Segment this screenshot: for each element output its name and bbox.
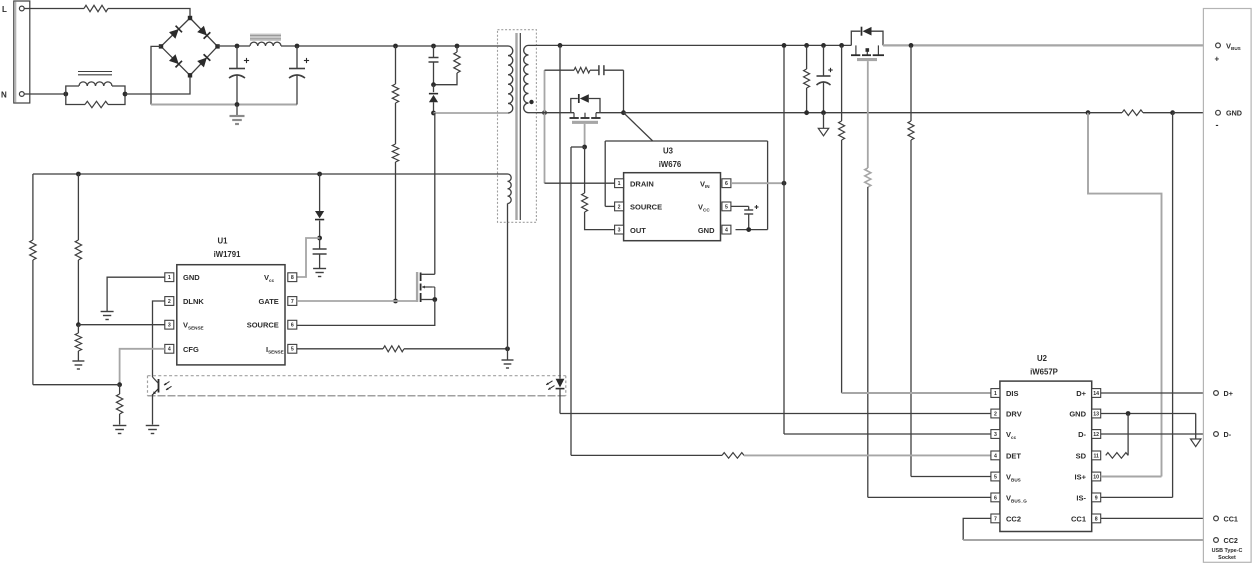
U1 pin 8 (288, 273, 297, 282)
U2 pin 3 (991, 430, 1000, 439)
U2 label CC2 (1006, 515, 1021, 524)
wire fuse to bridge (108, 9, 190, 17)
transistor Q4 channel (851, 45, 884, 55)
capacitor C6 (U3 VCC) (731, 205, 759, 230)
node VCC junction (317, 236, 322, 241)
bridge vertex node (188, 16, 192, 20)
resistor R7 (CFG lower) (116, 385, 122, 425)
wire DC rail (218, 45, 251, 47)
wire U1 DLNK to opto collector (153, 301, 165, 377)
svg-text:GND: GND (1226, 109, 1242, 118)
U1 pin 7 (288, 297, 297, 306)
capacitor C4 (VCC) (313, 238, 327, 268)
svg-text:6: 6 (291, 323, 294, 329)
svg-text:USB Type-C: USB Type-C (1212, 548, 1243, 554)
transformer primary winding (498, 46, 513, 113)
wire L to fuse (24, 8, 84, 10)
node VIN junction (782, 181, 787, 186)
wire GND to output (1173, 112, 1218, 114)
svg-text:4: 4 (168, 347, 171, 353)
svg-text:IS+: IS+ (1075, 473, 1087, 482)
U2 label DRV (1006, 410, 1022, 419)
choke damping resistor (66, 94, 125, 108)
svg-text:2: 2 (168, 299, 171, 305)
svg-text:9: 9 (1095, 495, 1098, 501)
node primary drain junction (431, 111, 436, 116)
wire VBUS sense vertical (783, 45, 785, 434)
svg-text:U3: U3 (663, 147, 674, 156)
svg-text:1: 1 (994, 391, 997, 397)
resistor R5 (VSENSE upper) (75, 174, 81, 325)
wire GND13 to SD (1127, 414, 1129, 456)
svg-text:N: N (1, 91, 7, 100)
U2 label VBUS (1006, 473, 1021, 483)
transistor Q2 gate wire (584, 124, 586, 147)
snubber left leg (544, 70, 546, 183)
U2 label VBUSG (1006, 494, 1027, 504)
ground (opto emitter) (146, 426, 160, 434)
svg-text:-: - (1216, 120, 1219, 130)
node IS- tap (1170, 110, 1175, 115)
node startup chain top (393, 44, 398, 49)
U2 label DIS (1006, 389, 1019, 398)
U1 pin 5 (288, 344, 297, 353)
capacitor C7 (output) (817, 45, 833, 112)
choke core lines (78, 72, 112, 75)
wire D- (1101, 433, 1215, 435)
wire secondary bottom (536, 112, 574, 114)
node vsense divider top (76, 172, 81, 177)
U1 label DLNK (183, 297, 204, 306)
svg-text:iW1791: iW1791 (214, 250, 242, 259)
svg-text:8: 8 (1095, 516, 1098, 522)
node clamp resistor top (455, 44, 460, 49)
bridge diode D1 (left-top edge) (169, 26, 182, 39)
connector J2 (USB Type-C) (1203, 9, 1251, 563)
svg-text:2: 2 (994, 411, 997, 417)
svg-text:CC2: CC2 (1006, 515, 1021, 524)
svg-text:10: 10 (1093, 474, 1099, 480)
U2 pin 2 (991, 409, 1000, 418)
U3 label SOURCE (630, 203, 662, 212)
wire GND13 (1101, 413, 1196, 415)
wire clamp to primary bottom (434, 112, 509, 114)
resistor R1 (startup upper) (392, 46, 398, 103)
resistor R13 (gate) (865, 168, 871, 497)
wire IS- kelvin (1172, 113, 1174, 498)
svg-text:D+: D+ (1224, 389, 1233, 398)
svg-text:13: 13 (1093, 411, 1099, 417)
wire IS+ (1101, 476, 1162, 478)
U2 pin 8 (1092, 514, 1101, 523)
U1 label GATE (259, 297, 279, 306)
optocoupler LED wire (559, 45, 561, 378)
svg-text:DLNK: DLNK (183, 297, 204, 306)
svg-text:8: 8 (291, 275, 294, 281)
transistor Q1 body arrow (422, 286, 435, 300)
svg-text:7: 7 (994, 516, 997, 522)
U2 pin 11 (1092, 451, 1101, 460)
fuse F1 (84, 5, 108, 11)
resistor R6 (VSENSE lower) (75, 325, 81, 361)
terminal CC1 (1214, 514, 1238, 523)
node resistor R11 top (804, 43, 809, 48)
svg-text:3: 3 (168, 323, 171, 329)
svg-text:IS-: IS- (1076, 494, 1086, 503)
node clamp junction (431, 82, 436, 87)
svg-text:U1: U1 (218, 237, 229, 246)
resistor R17 (SD) (1106, 453, 1128, 459)
resistor R11 (VBUS-GND) (804, 45, 810, 112)
transformer secondary winding (524, 45, 537, 112)
svg-text:4: 4 (725, 228, 728, 234)
ground (CFG resistor) (113, 426, 127, 434)
U3 label VCC (698, 203, 710, 213)
svg-text:12: 12 (1093, 432, 1099, 438)
wire aux rail (33, 173, 498, 175)
svg-text:3: 3 (994, 432, 997, 438)
U1 label GND (183, 273, 200, 282)
snubber right leg (623, 70, 625, 113)
wire U3 gnd leg (736, 141, 768, 230)
ground (ISENSE) (502, 349, 514, 368)
node choke-right (123, 92, 128, 97)
svg-text:SOURCE: SOURCE (630, 203, 662, 212)
U3 pin 6 (722, 179, 731, 188)
U2 pin 5 (991, 472, 1000, 481)
wire U1 VSENSE (78, 324, 164, 326)
choke L1 winding (66, 82, 125, 94)
U3 label GND (698, 226, 715, 235)
wire bridge minus to bottom rail (151, 46, 161, 104)
U1 label CFG (183, 345, 199, 354)
label iW1791 (214, 250, 242, 259)
resistor R9 (SR snubber) (545, 67, 591, 73)
U1 label VSENSE (183, 321, 204, 331)
node choke-left (63, 92, 68, 97)
wire U3 VIN (731, 182, 784, 184)
wire L2 to rail (281, 45, 498, 47)
transistor Q2 body diode (571, 94, 600, 113)
resistor R15 (current sense) (1088, 110, 1173, 116)
wire U3 DRAIN (545, 182, 615, 184)
diode D5 (clamp) (429, 85, 438, 113)
svg-text:3: 3 (618, 228, 621, 234)
U2 label GND13 (1069, 410, 1086, 419)
U3 label OUT (630, 226, 646, 235)
wire DET left (571, 454, 722, 456)
ground (VSENSE divider) (72, 361, 84, 369)
bridge vertex node (215, 44, 219, 48)
node ISENSE junction (505, 346, 510, 351)
transistor Q1 channel (420, 273, 422, 303)
node CFG junction (117, 382, 122, 387)
svg-text:4: 4 (994, 453, 997, 459)
node cap C1 bottom (235, 102, 240, 107)
U2 label SD (1076, 452, 1087, 461)
svg-text:L: L (2, 5, 7, 14)
label U3 (663, 147, 674, 156)
bridge rectifier BR1 frame (161, 18, 218, 75)
wire DIS (842, 392, 993, 394)
U2 label Vcc (1006, 430, 1017, 440)
svg-text:2: 2 (618, 204, 621, 210)
svg-text:CC2: CC2 (1224, 536, 1238, 545)
node R11 bottom (804, 110, 809, 115)
U1 pin 4 (165, 344, 174, 353)
resistor R10 (U3 gate) (582, 147, 615, 230)
U2 pin 13 (1092, 409, 1101, 418)
label USB Type-C Socket (1212, 548, 1243, 561)
node opto LED tap (558, 43, 563, 48)
bridge vertex node (159, 44, 163, 48)
U2 label IS- (1076, 494, 1086, 503)
U1 pin 3 (165, 320, 174, 329)
wire gate node to DET (571, 147, 585, 455)
opto light arrows (emit) (546, 381, 554, 390)
U2 pin 7 (991, 514, 1000, 523)
wire IS- (1101, 496, 1173, 498)
connector J1 (AC input) (14, 1, 30, 103)
U2 pin 9 (1092, 493, 1101, 502)
U3 pin 2 (615, 202, 624, 211)
svg-text:Socket: Socket (1218, 555, 1236, 561)
svg-text:CC1: CC1 (1071, 515, 1086, 524)
label U1 (218, 237, 229, 246)
U3 pin 5 (722, 202, 731, 211)
wire U1 GATE to Q1 (297, 300, 417, 302)
node cap C2 top (295, 44, 300, 49)
svg-text:iW676: iW676 (659, 160, 682, 169)
U2 pin 10 (1092, 472, 1101, 481)
wire choke to bridge (125, 77, 190, 94)
svg-text:GND: GND (1069, 410, 1086, 419)
node U3 gnd-cap junction (746, 227, 751, 232)
wire DET right (744, 454, 993, 456)
ground (secondary) (818, 113, 828, 136)
wire secondary VBUS rail (536, 44, 851, 46)
node SR drain-gnd junction (621, 110, 626, 115)
primary bottom rail (151, 104, 297, 106)
U2 pin 1 (991, 389, 1000, 398)
resistor R14 (VBUS sense) (908, 45, 914, 476)
svg-text:CC1: CC1 (1224, 514, 1238, 523)
wire IS+ kelvin (1088, 113, 1162, 477)
leader SR to U3 net (624, 113, 653, 141)
resistor R4 (CFG divider top) (30, 174, 36, 385)
ground (GND13) (1191, 414, 1201, 447)
svg-text:7: 7 (291, 299, 294, 305)
optocoupler phototransistor Q3 (153, 377, 159, 425)
node C7 bottom (821, 110, 826, 115)
wire U1 CFG (120, 349, 165, 385)
U1 pin 6 (288, 320, 297, 329)
transformer aux winding (498, 174, 512, 222)
U2 label CC1 (1071, 515, 1086, 524)
ground (VCC cap) (313, 269, 326, 277)
wire U3 source/gnd net (605, 140, 767, 142)
ground (U1 GND) (101, 312, 114, 320)
U1 label ISENSE (266, 345, 284, 355)
transistor Q1 gate bar (416, 272, 418, 302)
node aux-vcc diode top (317, 172, 322, 177)
capacitor C5 (SR snubber) (590, 65, 624, 75)
node cap C7 top (821, 43, 826, 48)
U2 label D+ (1076, 389, 1086, 398)
transformer T1 dashed box (498, 30, 537, 223)
wire aux bottom (507, 222, 509, 348)
terminal N (1, 91, 24, 100)
label iW657P (1030, 368, 1058, 377)
node clamp cap top (431, 44, 436, 49)
svg-text:GND: GND (183, 273, 200, 282)
svg-text:OUT: OUT (630, 226, 646, 235)
svg-text:DRV: DRV (1006, 410, 1022, 419)
U3 label VIN (700, 179, 710, 189)
U2 label IS+ (1075, 473, 1087, 482)
wire VBUS to output (883, 44, 1218, 46)
wire Q2 to GND rail (596, 112, 624, 114)
node cap C1 top (235, 44, 240, 49)
wire D+ (1101, 392, 1214, 394)
svg-text:5: 5 (725, 204, 728, 210)
svg-text:1: 1 (168, 275, 171, 281)
bridge diode D2 (top-right edge) (197, 26, 210, 39)
node IS+ tap (1086, 110, 1091, 115)
transistor Q4 gate wire (867, 61, 869, 168)
label U2 (1037, 354, 1048, 363)
secondary phase dot (529, 100, 533, 104)
svg-text:iW657P: iW657P (1030, 368, 1058, 377)
bridge vertex node (188, 73, 192, 77)
optocoupler LED D7 (556, 379, 565, 414)
svg-text:1: 1 (618, 181, 621, 187)
op-amp U3 body (624, 173, 721, 241)
wire U2 VCC (784, 433, 993, 435)
wire DRV (560, 413, 993, 415)
transistor Q2 gate plate (572, 121, 598, 124)
node VBUS rail 784 (782, 43, 787, 48)
label iW676 (659, 160, 682, 169)
svg-text:14: 14 (1093, 391, 1099, 397)
wire U2 CC2 (963, 518, 1218, 540)
capacitor C1 (bulk) (229, 46, 249, 105)
U3 label DRAIN (630, 179, 654, 188)
svg-text:GATE: GATE (259, 297, 279, 306)
capacitor C3 (clamp) (429, 46, 439, 85)
U3 pin 3 (615, 225, 624, 234)
svg-text:+: + (1215, 55, 1220, 64)
svg-text:D+: D+ (1076, 389, 1086, 398)
svg-text:D-: D- (1078, 430, 1086, 439)
svg-text:6: 6 (725, 181, 728, 187)
terminal GND (1216, 109, 1242, 130)
transistor Q1 drain (421, 113, 435, 274)
bridge diode D4 (bottom-right edge) (197, 54, 210, 67)
resistor R2 (startup lower) (392, 103, 398, 301)
svg-text:DIS: DIS (1006, 389, 1019, 398)
U1 label Vcc (264, 273, 275, 283)
svg-text:CFG: CFG (183, 345, 199, 354)
wire U2 VBUS_G (868, 496, 993, 498)
wire U3 source leg (605, 141, 614, 206)
inductor L2 (pi filter) core (250, 34, 281, 42)
U1 pin 2 (165, 297, 174, 306)
svg-text:GND: GND (698, 226, 715, 235)
wire U2 VBUS (911, 476, 993, 478)
op-amp U1 body (177, 265, 285, 365)
node snubber left (542, 110, 547, 115)
opto light arrows (receive) (164, 382, 172, 390)
node DIS divider top (839, 43, 844, 48)
terminal CC2 (1214, 536, 1238, 545)
wire N to choke (24, 93, 66, 95)
svg-text:U2: U2 (1037, 354, 1048, 363)
wire CC1 (1101, 517, 1214, 519)
U3 pin 1 (615, 179, 624, 188)
transistor Q2 channel (570, 113, 601, 118)
inductor L2 (pi filter) (250, 42, 281, 46)
wire CFG to left divider (33, 384, 120, 386)
svg-text:DET: DET (1006, 452, 1021, 461)
terminal L (2, 5, 24, 14)
wire VCC to U1 pin8 (297, 238, 320, 277)
svg-text:D-: D- (1224, 430, 1232, 439)
wire ISENSE to aux return (404, 348, 508, 350)
U2 pin 4 (991, 451, 1000, 460)
resistor R3 (clamp) (434, 46, 461, 85)
U1 pin 1 (165, 273, 174, 282)
node VSENSE (76, 322, 81, 327)
diode D6 (VCC rectifier) (315, 174, 324, 238)
svg-text:DRAIN: DRAIN (630, 179, 654, 188)
svg-text:SD: SD (1076, 452, 1087, 461)
wire U1 GND pin1 (107, 277, 165, 311)
op-amp U2 body (1000, 381, 1092, 531)
terminal VBUS (1215, 41, 1241, 63)
transistor Q1 source (297, 297, 437, 325)
resistor R8 (ISENSE) (383, 346, 404, 352)
svg-text:11: 11 (1093, 453, 1099, 459)
bridge diode D3 (left-bottom edge) (169, 54, 182, 67)
U2 label D- (1078, 430, 1086, 439)
svg-text:5: 5 (291, 347, 294, 353)
optocoupler U4 dashed box (148, 376, 566, 396)
node VBUS post-switch (909, 43, 914, 48)
node SR gate junction (582, 145, 587, 150)
resistor R16 (DET) (722, 453, 744, 459)
terminal D- (1214, 430, 1232, 439)
wire GND rail (624, 112, 1089, 114)
terminal D+ (1214, 389, 1233, 398)
U2 label DET (1006, 452, 1021, 461)
svg-text:SOURCE: SOURCE (247, 321, 279, 330)
node GND13 junction (1126, 411, 1131, 416)
svg-text:5: 5 (994, 474, 997, 480)
U3 pin 4 (722, 225, 731, 234)
capacitor C2 (bulk) (289, 46, 309, 105)
wire U1 ISENSE (297, 348, 383, 350)
ground (primary bulk) (230, 105, 245, 125)
U2 pin 6 (991, 493, 1000, 502)
U1 label SOURCE (247, 321, 279, 330)
U2 pin 14 (1092, 389, 1101, 398)
resistor R12 (DIS divider) (839, 45, 845, 393)
U2 pin 12 (1092, 430, 1101, 439)
svg-text:6: 6 (994, 495, 997, 501)
transistor Q4 gate plate (857, 58, 877, 61)
transformer core (517, 33, 521, 220)
